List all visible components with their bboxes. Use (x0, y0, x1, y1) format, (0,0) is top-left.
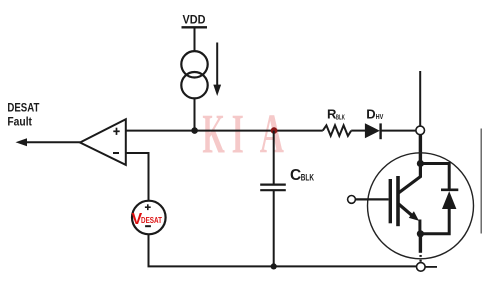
freewheeling diode cathode bar (441, 189, 458, 192)
svg-text:BLK: BLK (301, 173, 314, 184)
junction dot at C_BLK tap (dark red) (271, 127, 278, 134)
collector stub wire (top) (419, 71, 421, 126)
emitter terminal open circle (417, 263, 426, 272)
DESAT Fault output wire with arrowhead (16, 138, 81, 146)
wire diode to collector terminal (381, 130, 416, 132)
freewheeling diode branch (top wire) (420, 164, 449, 189)
feedback wire from minus input to VDESAT source (126, 153, 149, 201)
comparator U1 (80, 119, 126, 165)
current source (overlapping circles) (181, 51, 207, 77)
wire VDESAT to bottom rail and bottom rail (149, 234, 417, 266)
C_BLK top wire (273, 131, 275, 185)
VDESAT label (132, 211, 163, 228)
comparator minus input sign (113, 152, 119, 154)
svg-text:DESAT: DESAT (7, 101, 40, 115)
VDESAT minus sign (145, 225, 151, 227)
junction dot on bottom rail at C_BLK (271, 263, 277, 269)
junction dot at current source tap (191, 127, 198, 134)
emitter junction dot (417, 230, 424, 237)
collector terminal open circle (416, 126, 425, 135)
stub right of emitter terminal (425, 266, 437, 268)
freewheeling diode branch (bottom wire) (420, 209, 449, 234)
D_HV diode (365, 123, 380, 138)
comparator plus input sign (113, 128, 119, 135)
svg-text:DESAT: DESAT (141, 216, 162, 225)
wire VDD bar to current source (194, 27, 196, 51)
C_BLK capacitor plates (260, 184, 286, 186)
IGBT emitter diagonal with arrow (399, 204, 420, 234)
VDESAT source (132, 201, 166, 235)
svg-text:C: C (290, 167, 301, 184)
svg-text:BLK: BLK (336, 113, 345, 122)
IGBT gate bar (389, 179, 392, 223)
svg-text:A: A (260, 103, 284, 165)
main horizontal wire: comparator to resistor (126, 130, 323, 132)
IGBT package circle (368, 153, 474, 259)
right edge vertical wire (480, 129, 482, 234)
svg-text:VDD: VDD (183, 12, 206, 26)
current direction arrow (213, 43, 221, 97)
collector junction dot (417, 160, 424, 167)
R_BLK resistor (323, 125, 351, 136)
svg-text:K: K (202, 102, 225, 165)
dotted emitter connection (419, 255, 421, 263)
wire current source to main node (194, 99, 196, 131)
gate wire (355, 198, 388, 200)
collector lead into IGBT (419, 135, 422, 164)
emitter lead (419, 234, 422, 253)
svg-text:Fault: Fault (7, 115, 32, 129)
IGBT gate terminal open circle (348, 196, 356, 204)
VDD supply bar (182, 26, 208, 28)
svg-text:D: D (366, 106, 375, 121)
IGBT body bar (396, 176, 400, 226)
KIA watermark (202, 102, 283, 165)
IGBT collector diagonal (399, 164, 421, 193)
VDESAT plus sign (145, 204, 151, 210)
svg-text:I: I (232, 103, 244, 165)
freewheeling diode triangle (442, 191, 456, 209)
C_BLK bottom wire (273, 190, 275, 266)
wire resistor to diode (351, 130, 365, 132)
svg-text:HV: HV (376, 112, 384, 121)
